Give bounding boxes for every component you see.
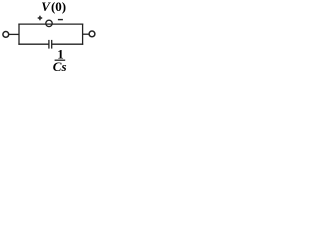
- wire right stub: [83, 33, 89, 35]
- left terminal: [3, 32, 9, 38]
- wire bottom right: [52, 43, 83, 45]
- plus polarity mark: [38, 16, 43, 20]
- voltage source U1: [46, 20, 52, 26]
- wire bottom left: [18, 43, 48, 45]
- svg-text:V(0): V(0): [41, 0, 66, 14]
- fraction bar: [55, 59, 66, 61]
- capacitor C1 plate right: [51, 40, 53, 49]
- svg-text:Cs: Cs: [53, 59, 67, 74]
- minus polarity mark: [58, 19, 63, 21]
- wire left vertical bar: [18, 24, 20, 45]
- wire top: [18, 23, 83, 25]
- right terminal: [89, 31, 95, 37]
- wire right vertical bar: [82, 24, 84, 45]
- capacitor C1 plate left: [48, 40, 50, 49]
- wire left stub: [9, 33, 19, 35]
